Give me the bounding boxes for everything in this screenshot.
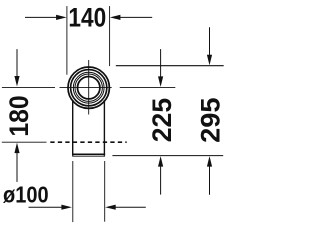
- dim 295 upper arrow: [207, 27, 212, 65]
- technical dimension drawing: vertical outlet pipe with flange: [0, 0, 236, 236]
- svg-text:140: 140: [68, 2, 106, 33]
- line A top reference (295): [116, 65, 224, 67]
- dim 180 lower arrow: [14, 143, 19, 182]
- flange outer circle: [68, 67, 109, 108]
- flange ring 4: [75, 74, 102, 101]
- svg-text:295: 295: [195, 97, 226, 142]
- svg-text:ø100: ø100: [3, 182, 49, 208]
- pipe left wall: [72, 100, 74, 156]
- dim 140 extension line left: [66, 6, 68, 75]
- svg-text:225: 225: [146, 98, 177, 142]
- dim 140 left arrow: [25, 15, 67, 20]
- level line solid part: [2, 141, 47, 143]
- dim o100 right arrow: [105, 205, 146, 210]
- bottom reference line: [112, 155, 223, 157]
- flange inner bore circle: [78, 77, 100, 99]
- horizontal centerline: [2, 86, 175, 88]
- svg-text:180: 180: [3, 95, 34, 136]
- dim 295 lower arrow: [207, 156, 212, 195]
- dim 140 right arrow: [110, 15, 152, 20]
- dim o100 left arrow: [29, 205, 72, 210]
- pipe bottom lip lower edge: [72, 155, 105, 157]
- dim 225 upper arrow: [158, 49, 163, 87]
- dim o100 extension line right: [104, 161, 106, 222]
- dim 225 lower arrow: [158, 156, 163, 195]
- flange ring 2: [71, 70, 107, 106]
- pipe right wall: [103, 100, 105, 156]
- level line dashed part: [50, 141, 126, 143]
- dim 140 extension line right: [109, 6, 111, 66]
- pipe bottom edge: [72, 153, 105, 155]
- vertical centerline: [88, 60, 90, 115]
- flange ring 3: [73, 72, 104, 103]
- dim 180 upper arrow: [14, 49, 19, 86]
- dim o100 extension line left: [72, 161, 74, 222]
